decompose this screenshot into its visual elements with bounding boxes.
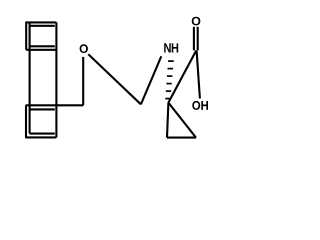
ring A outer bottom edge xyxy=(26,49,56,51)
carbonyl double bond line 1 xyxy=(193,27,195,51)
wire bond O-CH2 diagonal xyxy=(88,54,141,104)
atom label O (carbonyl) xyxy=(192,17,201,26)
ring B outer top edge + bond to CH2 xyxy=(26,104,84,106)
left bridge vertical (inner-left long line) xyxy=(29,22,31,133)
ring A outer left edge xyxy=(25,22,27,50)
atom label NH xyxy=(164,43,178,52)
ring B outer bottom edge xyxy=(25,136,56,138)
cyclopropane left edge xyxy=(167,103,168,138)
right bridge vertical (right long line) xyxy=(55,22,57,137)
carbonyl double bond line 2 xyxy=(197,27,199,51)
ring B inner top double-bond line xyxy=(30,108,55,110)
hashed wedge NH-stereocenter xyxy=(165,61,173,99)
cyclopropane bottom edge xyxy=(167,137,196,139)
wire bond C-OH xyxy=(197,50,200,98)
cyclopropane hypotenuse xyxy=(168,103,196,138)
wire bond stereocenter-COOH diagonal xyxy=(168,50,196,102)
atom label OH xyxy=(192,101,208,110)
wire bond CH2-O vertical xyxy=(82,57,84,105)
ring A outer top edge xyxy=(26,21,56,23)
ring A inner bottom double-bond line xyxy=(30,45,55,47)
wire bond CH2-NH diagonal xyxy=(141,56,161,104)
ring B outer left edge xyxy=(25,105,27,137)
ring B inner bottom double-bond line xyxy=(30,133,55,135)
ring A inner top double-bond line xyxy=(30,25,55,27)
atom label O (ether) xyxy=(80,44,88,53)
